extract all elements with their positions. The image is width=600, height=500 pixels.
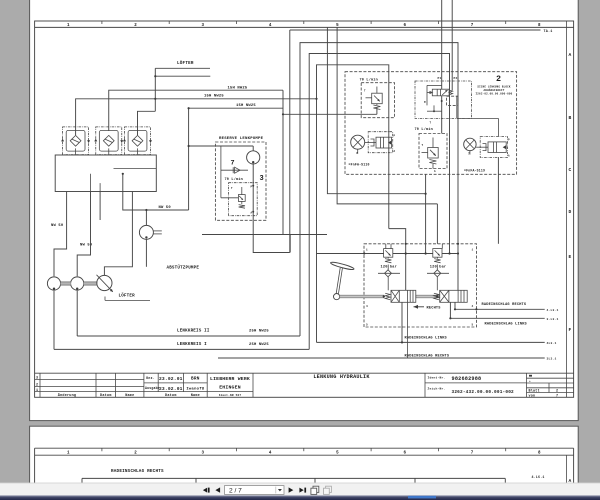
svg-text:4: 4 [472,305,474,308]
svg-text:Datum: Datum [100,394,112,398]
svg-text:6: 6 [403,451,406,455]
svg-text:1: 1 [472,249,474,252]
svg-text:LIEBHERR WERK: LIEBHERR WERK [210,376,250,382]
steering orbitrol 2 [434,290,467,302]
tank T1 [55,155,156,192]
svg-text:2: 2 [134,24,137,28]
svg-text:M: M [424,101,426,104]
svg-text:A: A [434,170,436,173]
wire supply to block valve [202,90,283,234]
svg-text:Iwanof8: Iwanof8 [186,387,205,392]
hose LENKKREIS I [54,343,309,349]
svg-text:LÖFTER: LÖFTER [177,61,194,66]
svg-text:BRN: BRN [191,377,200,382]
hose bus 15H NW25 (2) [76,95,317,136]
page 2 sheet [30,426,579,500]
svg-text:T: T [430,122,432,125]
net RADEINSCHLAG RECHTS (1) [455,302,559,312]
svg-text:4: 4 [366,305,368,308]
steering shaft [340,295,440,298]
svg-text:LENKUNG HYDRAULIK: LENKUNG HYDRAULIK [313,374,370,380]
accumulator A2 (right) [476,137,510,158]
svg-text:B: B [569,115,572,121]
svg-text:5: 5 [336,451,339,455]
pump P3 (reserve) [247,146,260,220]
accumulator A1 (left) [365,132,396,153]
svg-text:8: 8 [538,24,541,28]
svg-text:P: P [508,139,510,142]
reserve steering pump group 3 [215,137,266,221]
svg-text:7: 7 [468,152,470,155]
shaft pump1-pump2 [61,282,98,285]
svg-text:T: T [364,90,366,93]
date/name cells [157,373,159,391]
svg-text:A: A [394,150,396,153]
label LUEFTER (fan) [105,293,150,300]
svg-text:120 bar: 120 bar [381,264,398,269]
title cell separators [252,373,254,397]
svg-text:5: 5 [336,24,339,28]
svg-text:3: 3 [260,175,264,183]
B-port wire to accumulator [456,96,458,119]
hose LENKKREIS II [77,330,300,336]
steering unit group [364,244,477,327]
steering valve block group 2 [345,72,517,175]
svg-text:von: von [529,394,536,398]
drawing frame page 1 [35,21,574,397]
svg-text:LÖFTER: LÖFTER [119,293,136,298]
title block outline [35,372,574,374]
svg-text:1: 1 [67,24,70,28]
svg-text:Name: Name [125,394,134,398]
svg-text:25H NW25: 25H NW25 [249,330,269,334]
column numbers 1-8 [67,24,541,28]
svg-text:15H NW25: 15H NW25 [204,95,224,99]
last page button [299,488,303,493]
hose NW 50 to pump 1 [51,192,67,277]
svg-text:RECHTS: RECHTS [427,307,442,311]
svg-text:P: P [394,135,396,138]
wire filter3 feed [138,111,156,135]
svg-text:7: 7 [471,24,474,28]
svg-text:5: 5 [366,324,368,327]
svg-text:4: 4 [269,24,272,28]
svg-text:15H NW25: 15H NW25 [228,86,248,90]
steering orbitrol 1 [383,290,416,302]
svg-text:ABSTÜTZPUMPE: ABSTÜTZPUMPE [167,266,200,271]
svg-text:8: 8 [538,451,541,455]
svg-text:LENKKREIS II: LENKKREIS II [177,330,210,334]
svg-text:I262-02.00.00.000-000: I262-02.00.00.000-000 [476,93,513,96]
net RADEINSCHLAG RECHTS (2) [218,302,557,360]
block outline [426,85,428,105]
svg-text:3: 3 [202,24,205,28]
toolbar [0,483,600,496]
svg-text:RESERVE LENKPUMPE: RESERVE LENKPUMPE [219,137,264,141]
svg-text:Blatt: Blatt [529,388,540,393]
svg-text:70 L/min: 70 L/min [360,77,378,82]
check valve (left) [378,265,400,291]
svg-text:C: C [569,167,572,173]
svg-text:4L3.1: 4L3.1 [547,342,557,345]
svg-text:NW 50: NW 50 [80,244,93,248]
revision table columns [39,373,41,397]
svg-text:7: 7 [556,394,558,398]
svg-text:P2: P2 [454,77,458,80]
net RADEINSCHLAG LINKS (1) [450,302,558,326]
svg-text:3L3.1: 3L3.1 [547,358,557,361]
svg-text:Ident-NR 567: Ident-NR 567 [219,393,242,397]
svg-text:D: D [569,209,572,215]
svg-text:P: P [251,186,253,189]
svg-text:1: 1 [36,389,38,393]
ruler tick marks [102,21,506,24]
svg-text:=FnFA-S119: =FnFA-S119 [464,168,485,172]
net RADEINSCHLAG LINKS (2) [317,302,557,345]
svg-text:70 L/min: 70 L/min [415,127,433,132]
svg-text:A: A [508,155,510,158]
page 1 sheet [30,0,579,421]
node TA.1 bus line [290,30,553,34]
tank suction stub [99,192,101,221]
wire risers right of reserve pump [327,27,425,193]
revision header labels [58,393,200,398]
svg-text:3: 3 [36,377,38,381]
hose NW 50 suction [123,174,189,210]
hose NW 50 to pump 2 [77,192,93,277]
pressure bus 253.5 [317,99,459,343]
wire route C4 [317,65,389,229]
hose bus 15H NW25 (1) [109,86,283,131]
svg-text:RADEINSCHLAG RECHTS: RADEINSCHLAG RECHTS [482,303,527,307]
first page button [203,488,207,493]
svg-text:4.L6.1: 4.L6.1 [532,475,545,479]
svg-text:3.L3.1: 3.L3.1 [547,318,559,321]
page 2 column numbers [67,451,541,455]
svg-text:5: 5 [472,324,474,327]
svg-text:120 bar: 120 bar [430,264,447,269]
svg-text:Datum: Datum [165,394,177,398]
svg-text:Ident-Nr.: Ident-Nr. [428,375,446,379]
svg-text:RADEINSCHLAG LINKS: RADEINSCHLAG LINKS [405,336,448,340]
svg-text:2: 2 [496,74,501,84]
snapshot icon (disabled) [324,486,332,494]
svg-text:Zeich-Nr.: Zeich-Nr. [428,386,446,390]
svg-text:7: 7 [231,160,235,168]
previous page button [215,487,220,492]
svg-text:4.L3.1: 4.L3.1 [547,309,559,312]
check valve (right) [427,265,449,291]
wire luefter lines [155,67,210,69]
pilot sub box [447,96,459,105]
svg-text:TA.1: TA.1 [544,30,553,34]
wire TA.1 riser [289,30,291,253]
svg-text:23.02.01: 23.02.01 [159,376,183,382]
support pump (Abstuetzpumpe) [139,210,161,267]
hose to fan motor [104,192,132,276]
svg-text:4: 4 [269,451,272,455]
svg-text:T: T [231,187,233,190]
filter F2 [94,127,123,155]
relief valve 70 L/min (block left) [360,77,395,117]
svg-text:15H NW25: 15H NW25 [236,104,256,108]
wire route C2 [300,43,458,336]
svg-text:+: + [529,380,531,383]
svg-text:E: E [569,254,572,260]
svg-text:1: 1 [67,451,70,455]
svg-text:LENKKREIS I: LENKKREIS I [177,343,207,347]
svg-text:P1: P1 [438,77,442,80]
gauge M1 (left) [351,135,365,155]
solenoid valve Y1 [415,77,498,136]
svg-text:Änderung: Änderung [58,393,76,398]
svg-text:7: 7 [471,451,474,455]
wire manifold return [202,234,327,236]
hose tank return (internal) [114,168,157,170]
label RECHTS with arrow [414,305,442,311]
svg-text:Gez.: Gez. [146,377,155,381]
svg-text:Name: Name [191,394,200,398]
filter F1 [61,127,90,155]
next page button [289,487,294,492]
svg-text:2: 2 [556,389,558,393]
page 2 drawing frame [35,447,574,449]
bottom status strip [0,495,600,500]
revision row numbers [36,377,38,393]
svg-text:A: A [569,52,572,58]
svg-text:Ausgabe: Ausgabe [145,386,160,390]
svg-text:23.02.01: 23.02.01 [159,386,183,392]
row letters A-F [569,52,572,333]
wire reserve pump feed [188,108,190,210]
svg-text:ABHÄNGIGKEIT: ABHÄNGIGKEIT [483,88,504,92]
right margin band line [566,21,568,397]
svg-text:EHINGEN: EHINGEN [219,385,241,391]
svg-text:2: 2 [134,451,137,455]
svg-text:NW 50: NW 50 [51,224,64,228]
priority valve (reserve inner) [221,183,257,216]
svg-text:=FnFA-S110: =FnFA-S110 [349,163,370,167]
svg-text:25H NW25: 25H NW25 [249,343,269,347]
svg-text:F: F [569,327,572,333]
svg-text:3: 3 [202,451,205,455]
svg-text:2 / 7: 2 / 7 [229,487,242,494]
svg-text:RADEINSCHLAG RECHTS: RADEINSCHLAG RECHTS [111,469,164,474]
revision table rows [35,379,144,381]
svg-text:2: 2 [36,383,38,387]
valve body [432,89,449,96]
pump 1 [47,277,60,350]
svg-text:RADEINSCHLAG LINKS: RADEINSCHLAG LINKS [485,322,528,326]
steering wheel [330,261,354,300]
right mini table [527,377,574,379]
check valve V7 [221,146,248,198]
relief valve 120 bar (left) [381,244,398,269]
svg-text:7: 7 [356,152,358,155]
page number combo box [225,486,285,495]
wire risers from page top to valve P1 P2 [441,0,443,134]
svg-text:T: T [422,144,424,147]
relief valve 70 L/min (block center) [415,127,448,173]
gauge M2 (right) [464,138,476,155]
snapshot icon [311,486,319,494]
ruler band line [35,26,574,28]
svg-text:A: A [251,212,253,215]
wire route C3 [309,54,449,350]
svg-text:70 L/min: 70 L/min [225,177,243,182]
svg-text:982682988: 982682988 [452,376,482,382]
pump 2 [71,277,84,336]
svg-text:1: 1 [366,249,368,252]
svg-text:6: 6 [403,24,406,28]
filter F3 [123,127,152,155]
relief valve 120 bar (right) [430,244,447,269]
hose bus 15H NW25 (3) [189,104,283,108]
svg-text:3262-432.00.00.001-002: 3262-432.00.00.001-002 [452,390,515,395]
wire bus page 2 [82,477,505,479]
fan motor [97,275,113,292]
